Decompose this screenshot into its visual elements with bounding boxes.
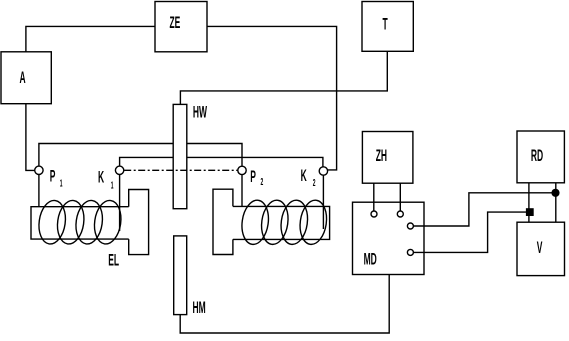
wire K1 down into left coil: [119, 175, 121, 231]
box RD: [517, 131, 564, 183]
terminal K1: [115, 166, 123, 174]
wire P1 to P2 (upper link): [39, 144, 242, 167]
svg-text:MD: MD: [364, 249, 377, 268]
right coil turn 3: [278, 199, 310, 247]
wire HM-bottom to MD-bottom: [180, 275, 389, 334]
left coil turn 3: [73, 199, 105, 246]
box A: [1, 52, 51, 104]
junction J1: [552, 189, 559, 196]
svg-text:A: A: [20, 68, 26, 87]
dash-dot axis line K1 to P2: [124, 169, 238, 171]
junction J2: [527, 209, 533, 215]
terminal P1: [35, 166, 43, 174]
svg-text:P: P: [250, 167, 256, 186]
svg-text:K: K: [301, 166, 307, 185]
box MD: [353, 202, 425, 274]
wire T-bottom to HW electrode: [180, 51, 387, 104]
svg-text:K: K: [98, 167, 104, 186]
wire RD-bottom to V-top (right): [555, 183, 557, 222]
left yoke bracket: [129, 190, 149, 255]
terminal P2: [238, 166, 246, 174]
MD terminal top-right: [397, 211, 403, 217]
left coil turn 2: [55, 199, 87, 246]
svg-text:RD: RD: [531, 146, 543, 165]
wire P1 down to left coil core: [38, 174, 40, 206]
svg-text:T: T: [383, 14, 389, 33]
electrode HM: [174, 236, 187, 315]
right yoke bracket: [213, 189, 233, 254]
box T: [362, 2, 413, 52]
wire K1 to K2 (lower link): [120, 157, 323, 166]
wire A-bottom to node P1: [26, 104, 35, 171]
svg-text:ZH: ZH: [376, 146, 387, 165]
svg-text:P: P: [50, 167, 56, 186]
svg-text:1: 1: [111, 180, 114, 191]
wire ZH pin2 to MD terminal: [399, 183, 401, 211]
right coil turn 4: [297, 199, 329, 247]
wire K2 down into right coil: [322, 175, 324, 229]
MD terminal top-left: [371, 211, 377, 217]
svg-text:2: 2: [313, 177, 316, 188]
svg-text:1: 1: [60, 178, 63, 189]
svg-text:ZE: ZE: [170, 13, 181, 32]
left coil core: [31, 207, 129, 239]
MD terminal right-lower: [407, 249, 413, 255]
left coil turn 1: [36, 199, 68, 246]
svg-text:2: 2: [261, 176, 264, 187]
right coil core: [233, 206, 330, 239]
wire MD right terminal 1 to junction J1: [413, 193, 553, 226]
MD terminal right-upper: [407, 223, 413, 229]
wire MD right terminal 2 to junction J2: [413, 212, 527, 252]
svg-text:EL: EL: [108, 250, 119, 269]
electrode HW: [173, 104, 187, 208]
right coil turn 2: [259, 199, 291, 247]
box V: [517, 222, 565, 275]
wire P2 down to right coil core: [241, 175, 243, 207]
wire ZE-left to A-top: [26, 26, 155, 51]
svg-text:V: V: [537, 238, 543, 257]
svg-text:HM: HM: [193, 298, 206, 317]
wire ZH pin1 to MD terminal: [373, 183, 375, 211]
svg-text:HW: HW: [193, 102, 207, 121]
box ZE: [155, 2, 207, 52]
wire RD-bottom to V-top (left): [528, 183, 530, 222]
right coil turn 1: [239, 199, 271, 247]
left coil turn 4: [92, 199, 124, 246]
wire ZE-right to node K2: [207, 26, 337, 170]
terminal K2: [319, 167, 327, 175]
box ZH: [362, 132, 413, 184]
